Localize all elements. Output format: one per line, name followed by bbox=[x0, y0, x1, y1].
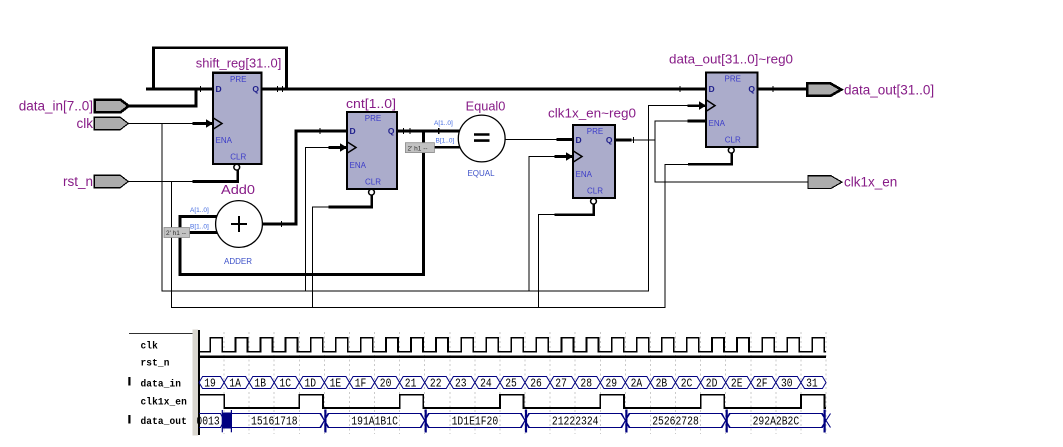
svg-text:292A2B2C: 292A2B2C bbox=[753, 414, 800, 428]
wire clk stub data_out reg CK bbox=[689, 104, 706, 107]
svg-text:1A: 1A bbox=[229, 377, 241, 391]
wire data_out Q bus to pin bbox=[758, 88, 808, 91]
wire Add0 output bus to cnt D bbox=[262, 131, 347, 224]
register shift_reg bbox=[196, 56, 281, 171]
wire Equal0 B input bus bbox=[434, 146, 460, 149]
svg-text:2C: 2C bbox=[681, 377, 693, 391]
svg-text:CLR: CLR bbox=[365, 178, 381, 187]
wire rst_n stub data_out reg CLR bbox=[690, 153, 732, 164]
output pin data_out[31..0] bbox=[807, 83, 934, 98]
svg-text:ENA: ENA bbox=[709, 119, 726, 128]
svg-text:23: 23 bbox=[455, 377, 467, 391]
svg-text:2F: 2F bbox=[756, 377, 768, 391]
waveform area left border bbox=[198, 330, 200, 435]
wire clk1x_en wire to output pin bbox=[655, 181, 808, 183]
svg-text:CLR: CLR bbox=[725, 136, 741, 145]
svg-text:data_in: data_in bbox=[141, 379, 182, 390]
svg-text:PRE: PRE bbox=[725, 74, 741, 83]
comparator Equal0 bbox=[434, 99, 505, 179]
svg-text:2' h1 --: 2' h1 -- bbox=[408, 145, 428, 152]
svg-text:21222324: 21222324 bbox=[552, 414, 599, 428]
wire clk trunk riser and rail bbox=[162, 106, 689, 291]
wire clk1x_en to data_out ENA bbox=[655, 120, 689, 122]
svg-text:CLR: CLR bbox=[230, 153, 246, 162]
svg-text:rst_n: rst_n bbox=[141, 357, 170, 368]
wire rst_n stub shift_reg CLR bbox=[194, 170, 238, 182]
input pin data_in[7..0] bbox=[19, 99, 129, 114]
svg-text:29: 29 bbox=[606, 377, 618, 391]
svg-text:1C: 1C bbox=[279, 377, 291, 391]
wire rst_n branch to clk1x_en reg CLR bbox=[539, 215, 556, 308]
wire stub data_out reg ENA bbox=[689, 120, 706, 123]
svg-text:2B: 2B bbox=[656, 377, 668, 391]
svg-text:27: 27 bbox=[555, 377, 567, 391]
svg-text:28: 28 bbox=[580, 377, 592, 391]
waveform trace rst_n bbox=[199, 355, 826, 357]
wire stub clk1x_en reg D bbox=[558, 138, 573, 141]
waveform trace clk bbox=[199, 338, 826, 352]
svg-text:1B: 1B bbox=[254, 377, 266, 391]
wire clk stub clk1x_en reg CK bbox=[556, 155, 573, 158]
svg-text:Q: Q bbox=[252, 84, 259, 94]
svg-text:D: D bbox=[216, 84, 222, 94]
svg-text:2' h1 --: 2' h1 -- bbox=[166, 230, 186, 237]
wire clk branch to cnt CK bbox=[305, 148, 330, 292]
waveform panel name column top border bbox=[129, 333, 193, 335]
wire rst_n trunk riser and rail bbox=[171, 164, 689, 307]
svg-text:PRE: PRE bbox=[365, 114, 381, 123]
wire Equal0 output wire bbox=[505, 139, 558, 141]
svg-text:21: 21 bbox=[405, 377, 417, 391]
output pin clk1x_en bbox=[808, 175, 897, 190]
svg-text:1D: 1D bbox=[305, 377, 317, 391]
svg-text:data_out[31..0]~reg0: data_out[31..0]~reg0 bbox=[669, 52, 793, 67]
input pin rst_n bbox=[63, 174, 128, 189]
svg-text:clk1x_en~reg0: clk1x_en~reg0 bbox=[548, 106, 636, 121]
svg-text:B[1..0]: B[1..0] bbox=[190, 224, 209, 231]
wire clk stub cnt CK bbox=[330, 146, 347, 149]
wire clk1x_en Q wire bbox=[630, 139, 655, 141]
wire rst_n stub cnt CLR bbox=[330, 195, 372, 207]
svg-text:A[1..0]: A[1..0] bbox=[190, 207, 209, 214]
svg-text:Add0: Add0 bbox=[221, 182, 255, 197]
waveform data_out transition blobs bbox=[222, 410, 830, 433]
wire cnt Q bus to Equal0 A bbox=[397, 130, 460, 133]
wire shift_reg Q bus to data_out reg D bbox=[262, 88, 707, 91]
svg-text:Q: Q bbox=[388, 126, 395, 136]
svg-text:25: 25 bbox=[505, 377, 517, 391]
wire clk1x_en vertical bbox=[654, 121, 656, 182]
register data_out~reg0 bbox=[669, 52, 793, 154]
svg-text:31: 31 bbox=[806, 377, 818, 391]
svg-text:1E: 1E bbox=[330, 377, 342, 391]
svg-text:B[1..0]: B[1..0] bbox=[436, 138, 455, 145]
svg-text:24: 24 bbox=[480, 377, 492, 391]
svg-text:CLR: CLR bbox=[587, 187, 603, 196]
wire data_in bus to D bbox=[129, 89, 196, 106]
svg-text:ENA: ENA bbox=[576, 170, 593, 179]
wire rst_n wire bbox=[128, 181, 194, 183]
svg-text:D: D bbox=[576, 135, 582, 145]
input pin clk bbox=[77, 116, 129, 131]
svg-text:D: D bbox=[709, 84, 715, 94]
svg-text:2E: 2E bbox=[731, 377, 743, 391]
svg-text:191A1B1C: 191A1B1C bbox=[351, 414, 398, 428]
svg-text:clk1x_en: clk1x_en bbox=[844, 175, 897, 190]
svg-text:ENA: ENA bbox=[350, 161, 367, 170]
wire Add0 B input bus bbox=[190, 231, 218, 234]
svg-text:0013: 0013 bbox=[196, 414, 219, 428]
wire Add0 A input feedback bus bbox=[180, 131, 424, 275]
wire rst_n stub clk1x_en reg CLR bbox=[556, 204, 594, 215]
expand mark data_out bbox=[128, 415, 130, 424]
register cnt bbox=[340, 96, 397, 195]
svg-text:ENA: ENA bbox=[216, 136, 233, 145]
svg-text:data_in[7..0]: data_in[7..0] bbox=[19, 99, 93, 114]
svg-text:clk: clk bbox=[77, 116, 94, 131]
constant 2h1 for Add0 B bbox=[164, 228, 190, 238]
svg-text:15161718: 15161718 bbox=[251, 414, 298, 428]
waveform name column separator band bbox=[193, 330, 199, 436]
constant 2h1 for Equal0 B bbox=[405, 143, 434, 153]
svg-text:data_out: data_out bbox=[141, 416, 187, 427]
svg-text:22: 22 bbox=[430, 377, 442, 391]
wire clk branch to clk1x_en reg CK bbox=[529, 157, 556, 292]
svg-text:data_out[31..0]: data_out[31..0] bbox=[844, 83, 934, 98]
register clk1x_en~reg0 bbox=[548, 106, 636, 205]
svg-text:1D1E1F20: 1D1E1F20 bbox=[452, 414, 499, 428]
wire clk wire to shift_reg bbox=[128, 123, 194, 125]
wire clk1x_en reg Q stub bbox=[615, 139, 630, 142]
svg-text:20: 20 bbox=[380, 377, 392, 391]
svg-text:A[1..0]: A[1..0] bbox=[434, 120, 453, 127]
svg-text:clk1x_en: clk1x_en bbox=[141, 397, 187, 408]
svg-text:PRE: PRE bbox=[587, 127, 603, 136]
svg-text:shift_reg[31..0]: shift_reg[31..0] bbox=[196, 56, 281, 71]
svg-text:cnt[1..0]: cnt[1..0] bbox=[346, 96, 396, 111]
waveform trace clk1x_en bbox=[199, 395, 826, 408]
svg-text:1F: 1F bbox=[355, 377, 367, 391]
svg-text:clk: clk bbox=[141, 340, 158, 351]
svg-text:Equal0: Equal0 bbox=[466, 99, 506, 114]
waveform bus data_out cells bbox=[199, 414, 826, 428]
svg-text:Q: Q bbox=[606, 135, 613, 145]
wire shift_reg feedback loop bbox=[154, 48, 287, 89]
svg-text:PRE: PRE bbox=[230, 75, 246, 84]
waveform grid lines bbox=[224, 332, 826, 434]
svg-text:D: D bbox=[350, 126, 356, 136]
svg-text:30: 30 bbox=[781, 377, 793, 391]
svg-text:26: 26 bbox=[530, 377, 542, 391]
svg-text:25262728: 25262728 bbox=[652, 414, 699, 428]
wire clk stub shift_reg CK bbox=[194, 122, 213, 125]
svg-text:EQUAL: EQUAL bbox=[467, 169, 495, 178]
wire rst_n branch to cnt CLR bbox=[313, 207, 331, 307]
svg-text:2D: 2D bbox=[706, 377, 718, 391]
adder Add0 bbox=[190, 182, 262, 266]
svg-text:ADDER: ADDER bbox=[224, 257, 252, 266]
waveform bus data_in cells bbox=[199, 377, 826, 389]
svg-text:Q: Q bbox=[748, 84, 755, 94]
wire shift_reg D input bus bbox=[148, 88, 214, 91]
svg-text:2A: 2A bbox=[631, 377, 643, 391]
junction ticks on buses bbox=[201, 86, 774, 227]
expand mark data_in bbox=[128, 377, 130, 386]
svg-text:rst_n: rst_n bbox=[63, 174, 93, 189]
svg-text:19: 19 bbox=[204, 377, 216, 391]
